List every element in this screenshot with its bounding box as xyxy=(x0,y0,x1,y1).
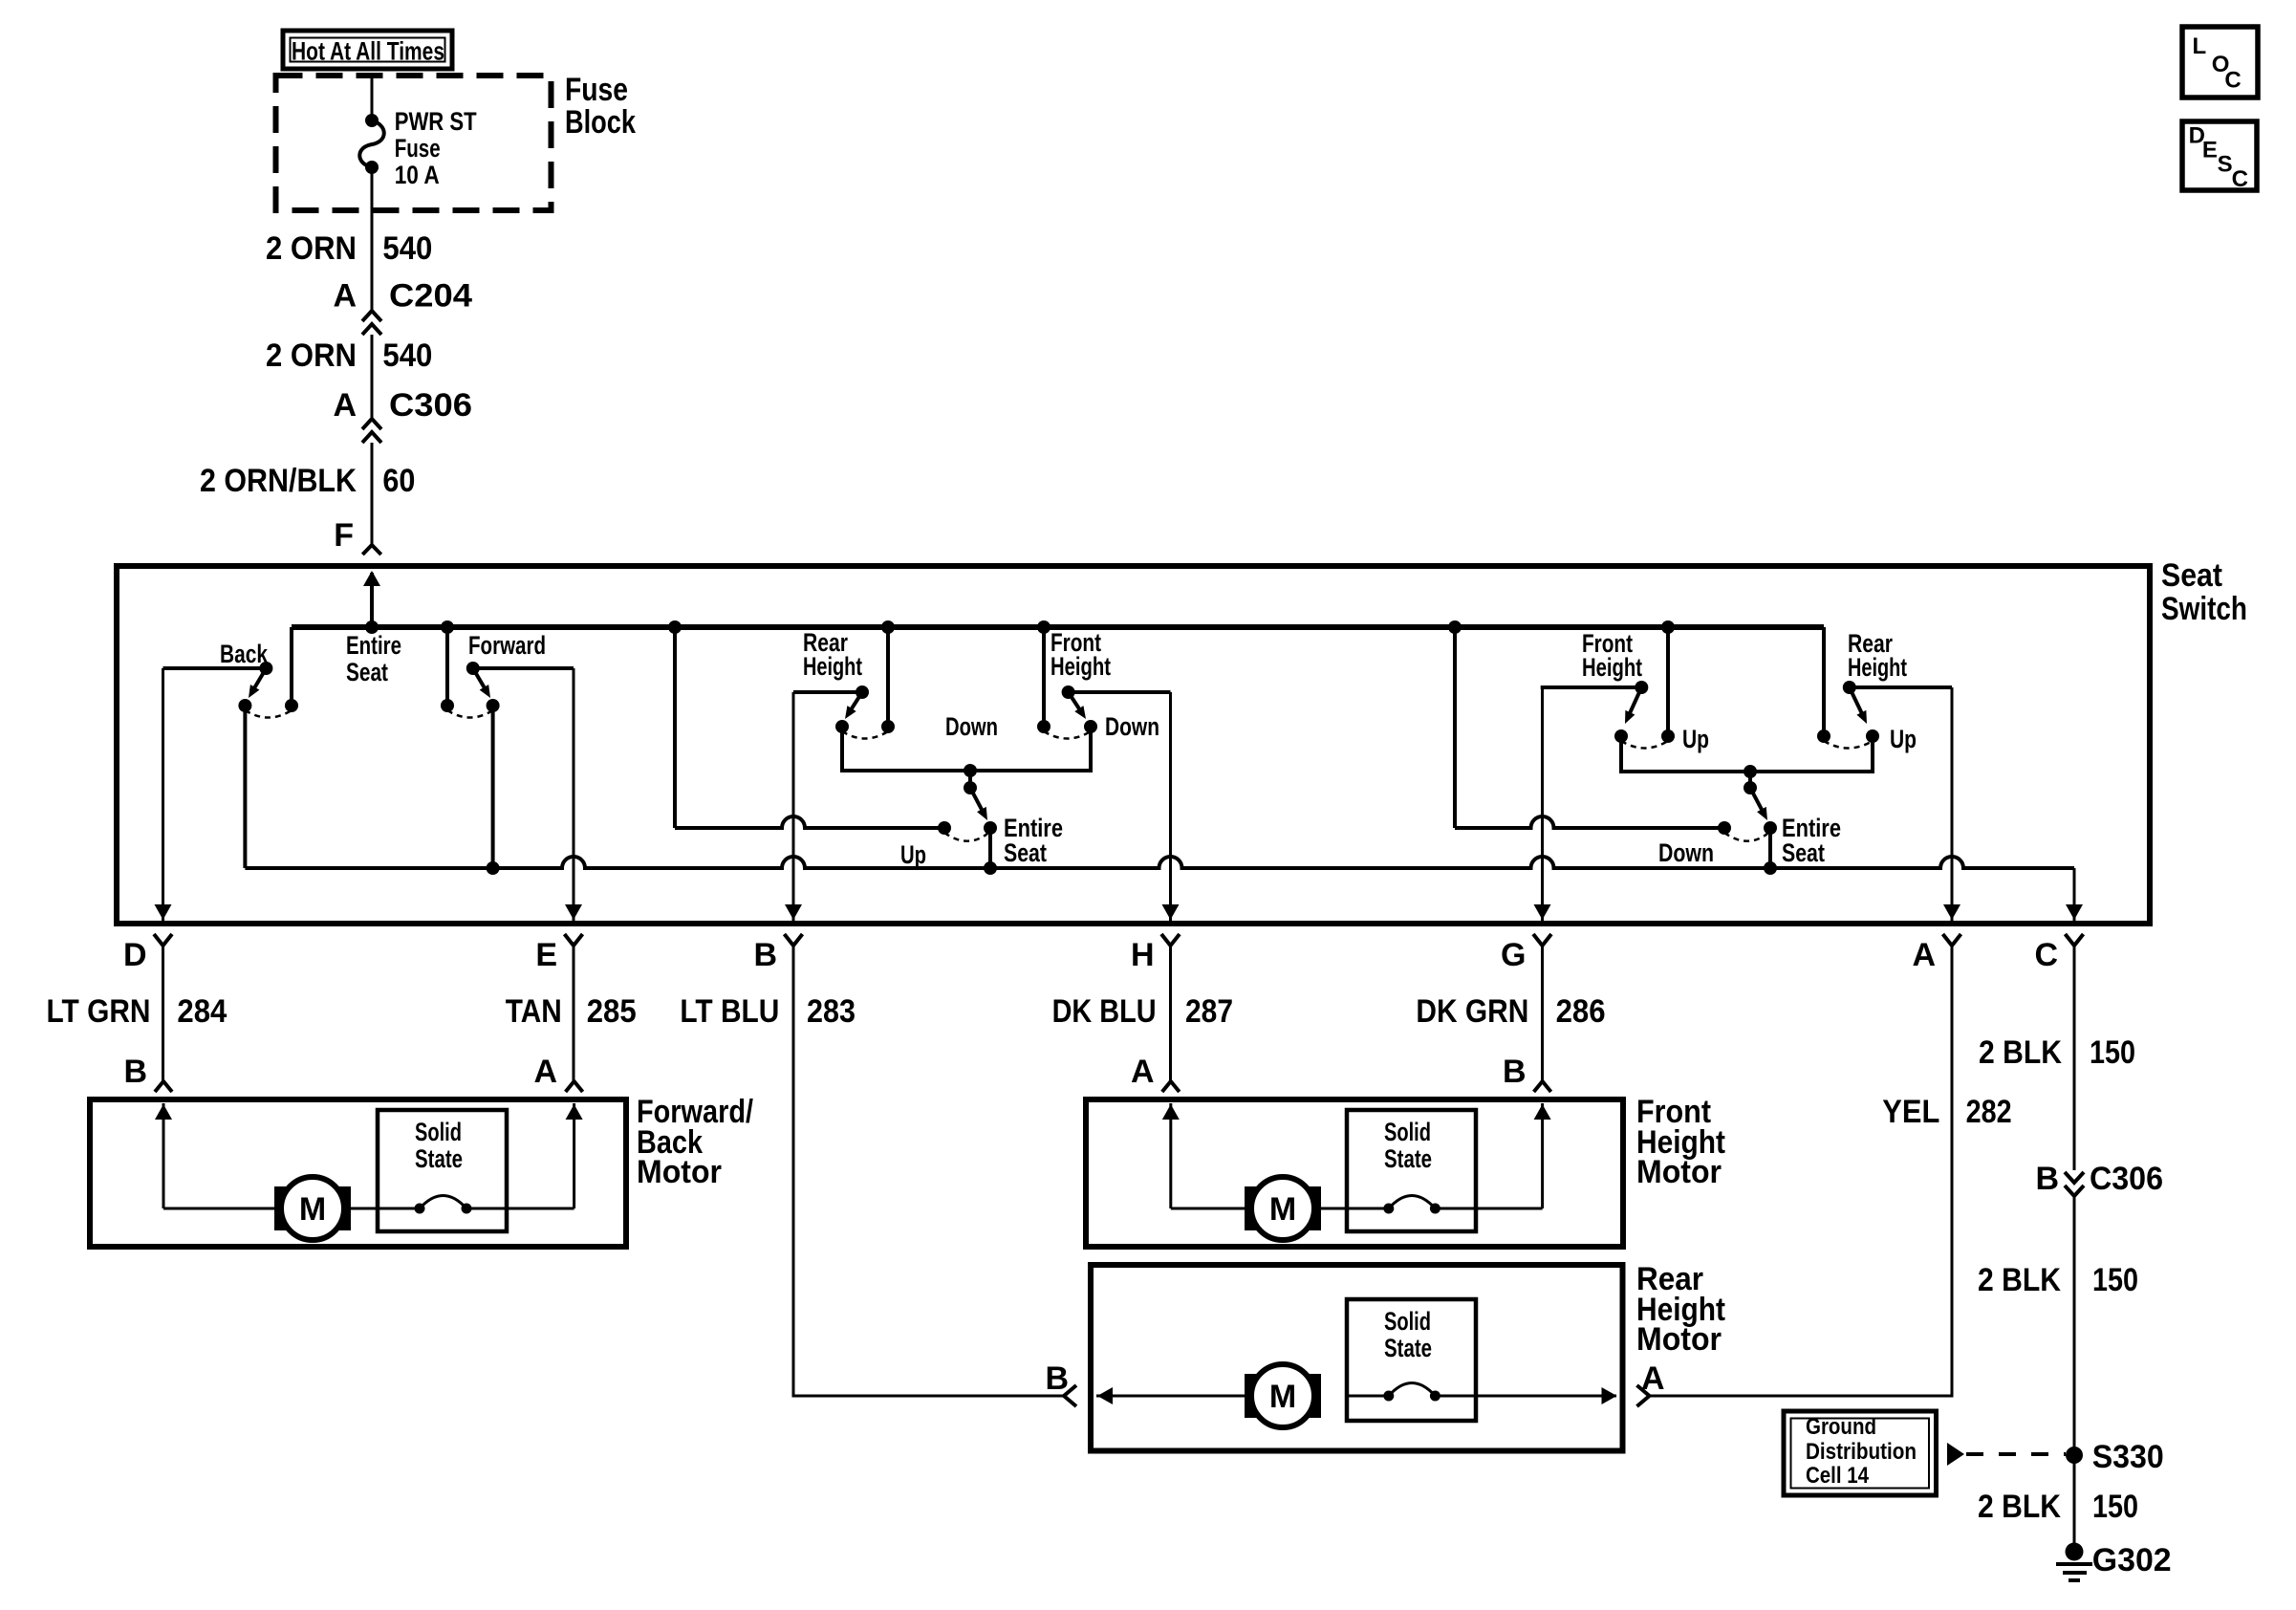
svg-text:B: B xyxy=(753,937,777,973)
forward switch contacts xyxy=(441,699,454,712)
svg-text:LT GRN: LT GRN xyxy=(47,993,151,1030)
svg-text:C204: C204 xyxy=(389,278,472,315)
svg-text:Seat: Seat xyxy=(346,658,388,686)
svg-text:A: A xyxy=(533,1054,557,1090)
svg-text:2 BLK: 2 BLK xyxy=(1978,1262,2061,1298)
wire E vertical xyxy=(573,668,575,921)
svg-text:10 A: 10 A xyxy=(395,161,440,189)
rear height (right) contacts xyxy=(1817,729,1830,743)
terminal B of seat switch xyxy=(785,904,802,920)
wire fuse to C204 xyxy=(371,167,374,310)
svg-text:YEL: YEL xyxy=(1882,1094,1939,1130)
wire H vertical xyxy=(1169,692,1172,921)
FH motor M symbol xyxy=(1245,1186,1321,1230)
bus junction (forward) xyxy=(441,620,454,634)
svg-text:150: 150 xyxy=(2092,1489,2138,1525)
svg-text:2 BLK: 2 BLK xyxy=(1979,1034,2062,1071)
front height blade xyxy=(1069,692,1081,711)
svg-text:282: 282 xyxy=(1966,1094,2012,1130)
terminal H of seat switch xyxy=(1162,904,1180,920)
svg-text:150: 150 xyxy=(2092,1262,2138,1298)
right entire seat pivot xyxy=(1744,781,1757,794)
wire C306 to seat switch F xyxy=(371,443,374,546)
svg-text:C: C xyxy=(2224,68,2241,94)
right entire seat blade xyxy=(1750,788,1763,812)
svg-text:Seat: Seat xyxy=(1782,838,1825,867)
svg-text:150: 150 xyxy=(2090,1034,2135,1071)
svg-text:Seat: Seat xyxy=(2161,557,2222,594)
svg-text:Up: Up xyxy=(1682,725,1709,753)
back switch pivot xyxy=(259,662,272,675)
front height (right) contacts xyxy=(1614,729,1628,743)
front height (right) blade xyxy=(1629,687,1641,715)
wire G vertical xyxy=(1541,687,1544,921)
forward/back motor box xyxy=(90,1099,626,1247)
svg-text:C: C xyxy=(2034,937,2058,973)
wire B vertical xyxy=(792,692,795,921)
svg-text:Solid: Solid xyxy=(415,1118,462,1146)
svg-text:285: 285 xyxy=(587,993,637,1030)
wire D to motor xyxy=(162,946,164,1082)
svg-text:Cell 14: Cell 14 xyxy=(1806,1463,1870,1489)
middle entire seat to lower bus xyxy=(988,828,992,868)
middle contacts joining line xyxy=(842,727,1091,771)
FH thermal breaker xyxy=(1347,1207,1389,1210)
front height (right) pivot xyxy=(1635,681,1648,694)
svg-text:A: A xyxy=(1131,1054,1155,1090)
middle entire seat pivot xyxy=(964,781,977,794)
svg-text:287: 287 xyxy=(1185,993,1233,1030)
svg-text:2 ORN/BLK: 2 ORN/BLK xyxy=(200,463,357,499)
LOC reference box xyxy=(2182,27,2258,98)
bus drop to back contact xyxy=(290,627,293,706)
rear height motor box xyxy=(1091,1265,1623,1451)
svg-text:PWR ST: PWR ST xyxy=(395,107,477,136)
svg-text:Motor: Motor xyxy=(1636,1321,1722,1358)
forward switch blade xyxy=(473,668,486,689)
svg-text:Fuse: Fuse xyxy=(395,134,441,163)
rear height (right) pivot xyxy=(1843,681,1856,694)
FH motor wires xyxy=(1171,1207,1245,1210)
svg-text:Down: Down xyxy=(945,712,998,741)
front height contacts xyxy=(1037,720,1051,733)
svg-text:Height: Height xyxy=(1582,653,1642,682)
svg-text:S: S xyxy=(2218,152,2233,178)
svg-text:Block: Block xyxy=(565,104,636,141)
FH solid state box xyxy=(1347,1110,1476,1231)
bus junction (front height down) xyxy=(1037,620,1051,634)
svg-text:G: G xyxy=(1501,937,1526,973)
rear height blade xyxy=(850,692,862,711)
right contacts joining line xyxy=(1621,736,1873,772)
svg-text:2 ORN: 2 ORN xyxy=(266,230,357,267)
bus junction (front height up) xyxy=(1661,620,1675,634)
back switch blade xyxy=(253,668,266,689)
svg-text:286: 286 xyxy=(1556,993,1606,1030)
wire G to motor xyxy=(1541,946,1544,1082)
middle entire seat contacts xyxy=(938,821,951,835)
front height motor box xyxy=(1086,1099,1623,1247)
RH motor right lead xyxy=(1435,1395,1616,1398)
svg-text:State: State xyxy=(1384,1144,1432,1173)
bus drop front-height up contact xyxy=(1666,627,1670,736)
wire D pivot line xyxy=(163,666,267,670)
power bus xyxy=(292,624,1824,630)
lower bus junction (forward) xyxy=(487,861,500,875)
right entire seat to lower bus xyxy=(1768,828,1772,868)
svg-text:B: B xyxy=(123,1054,147,1090)
svg-text:State: State xyxy=(1384,1334,1432,1362)
svg-text:Forward: Forward xyxy=(468,631,546,660)
dashed reference pointer to S330 xyxy=(1947,1443,1964,1466)
svg-text:B: B xyxy=(2035,1161,2059,1197)
terminal C of seat switch xyxy=(2066,904,2083,920)
RH thermal breaker xyxy=(1347,1395,1389,1398)
svg-text:Solid: Solid xyxy=(1384,1307,1431,1336)
svg-text:E: E xyxy=(535,937,557,973)
seat switch box xyxy=(117,566,2150,924)
RH solid state box xyxy=(1347,1299,1476,1421)
svg-text:2 ORN: 2 ORN xyxy=(266,337,357,374)
svg-text:DK GRN: DK GRN xyxy=(1416,993,1528,1030)
bus drop rear-height down contact xyxy=(886,627,890,727)
svg-text:C306: C306 xyxy=(389,387,472,424)
svg-text:A: A xyxy=(333,278,357,315)
svg-text:M: M xyxy=(299,1191,326,1228)
wire E to motor xyxy=(573,946,575,1082)
svg-text:Down: Down xyxy=(1105,712,1159,741)
RH motor M symbol xyxy=(1245,1374,1321,1418)
terminal D of seat switch xyxy=(155,904,172,920)
bus junction F xyxy=(365,620,379,634)
FH motor B lead xyxy=(1541,1103,1544,1208)
up line (bus to middle entire seat) xyxy=(673,627,677,828)
middle entire-seat junction xyxy=(964,764,977,777)
wire A vertical xyxy=(1951,687,1954,921)
rear height pivot line xyxy=(793,690,862,694)
rear height (right) blade xyxy=(1850,687,1863,715)
wire from fuse block top to fuse xyxy=(371,76,374,120)
svg-text:Motor: Motor xyxy=(637,1154,722,1190)
bus drop front-height down contact xyxy=(1042,627,1046,727)
svg-text:Down: Down xyxy=(1658,838,1714,867)
rear height contacts xyxy=(835,720,849,733)
svg-text:L: L xyxy=(2193,33,2207,59)
bus drop rear-height left contact xyxy=(1822,627,1826,736)
svg-text:D: D xyxy=(123,937,147,973)
svg-text:S330: S330 xyxy=(2092,1439,2164,1475)
lower bus (common return) xyxy=(245,857,2074,868)
right entire seat contacts xyxy=(1718,821,1731,835)
svg-text:Motor: Motor xyxy=(1636,1154,1722,1190)
svg-text:TAN: TAN xyxy=(506,993,562,1030)
svg-text:Height: Height xyxy=(1051,652,1111,681)
back switch contacts xyxy=(238,699,251,712)
svg-text:H: H xyxy=(1131,937,1155,973)
svg-text:F: F xyxy=(334,517,354,554)
svg-text:B: B xyxy=(1503,1054,1527,1090)
RH motor left lead xyxy=(1096,1395,1245,1398)
svg-text:A: A xyxy=(1641,1360,1665,1397)
svg-text:Up: Up xyxy=(1890,725,1917,753)
wire D vertical xyxy=(162,668,164,921)
svg-text:540: 540 xyxy=(382,337,432,374)
splice S330 xyxy=(2066,1447,2083,1464)
svg-text:284: 284 xyxy=(177,993,227,1030)
svg-text:Height: Height xyxy=(803,652,862,681)
forward contact wire to lower bus xyxy=(491,706,495,868)
fuse block (dashed box) xyxy=(276,76,552,210)
svg-text:C: C xyxy=(2232,166,2248,192)
power entry arrow (F) xyxy=(370,573,374,627)
svg-text:A: A xyxy=(1912,937,1936,973)
back contact wire to lower bus xyxy=(243,706,247,868)
svg-text:G302: G302 xyxy=(2092,1542,2172,1578)
svg-text:Height: Height xyxy=(1848,653,1907,682)
FB motor A lead xyxy=(573,1103,575,1208)
ground distribution callout box xyxy=(1784,1411,1937,1495)
svg-text:Solid: Solid xyxy=(1384,1118,1431,1146)
svg-text:M: M xyxy=(1269,1191,1296,1228)
front height (right) pivot line xyxy=(1541,685,1642,689)
svg-text:Entire: Entire xyxy=(346,631,401,660)
svg-text:E: E xyxy=(2202,138,2218,163)
svg-text:DK BLU: DK BLU xyxy=(1052,993,1157,1030)
front height pivot line xyxy=(1069,690,1171,694)
wire H to motor xyxy=(1169,946,1172,1082)
down line (bus to right entire seat) xyxy=(1453,627,1457,828)
svg-text:Switch: Switch xyxy=(2161,591,2247,627)
wire C upper segment xyxy=(2073,946,2076,1171)
svg-text:Ground: Ground xyxy=(1806,1414,1876,1440)
FB thermal breaker xyxy=(378,1207,420,1210)
svg-text:C306: C306 xyxy=(2090,1161,2163,1197)
Hot At All Times callout box xyxy=(283,31,452,69)
svg-text:State: State xyxy=(415,1144,463,1173)
svg-text:A: A xyxy=(333,387,357,424)
forward switch pivot line xyxy=(473,666,574,670)
connector C306 (bottom) xyxy=(2065,1172,2084,1183)
svg-text:60: 60 xyxy=(382,463,415,499)
middle entire seat blade xyxy=(970,788,983,812)
bus junction (rear height down) xyxy=(881,620,895,634)
wire RH motor A to YEL xyxy=(1637,1385,1650,1406)
lower bus junction (right ES) xyxy=(1764,861,1777,875)
bus drop to forward contact xyxy=(445,627,449,706)
front height pivot xyxy=(1062,685,1075,699)
FB motor B lead xyxy=(162,1103,165,1208)
bus junction (up line) xyxy=(668,620,682,634)
svg-text:2 BLK: 2 BLK xyxy=(1978,1489,2061,1525)
FB solid state box xyxy=(378,1110,507,1231)
svg-text:Hot At All Times: Hot At All Times xyxy=(292,37,444,66)
bus junction (down line right) xyxy=(1448,620,1462,634)
svg-text:M: M xyxy=(1269,1379,1296,1415)
lower bus junction (middle ES) xyxy=(984,861,997,875)
wire C204 to C306 xyxy=(371,335,374,418)
FH motor A lead xyxy=(1169,1103,1172,1208)
right entire-seat junction xyxy=(1744,765,1757,778)
rear height pivot xyxy=(856,685,869,699)
svg-text:B: B xyxy=(1045,1360,1069,1397)
terminal A of seat switch xyxy=(1943,904,1960,920)
FB motor M symbol xyxy=(274,1186,351,1230)
rear height (right) pivot line xyxy=(1850,685,1952,689)
svg-text:540: 540 xyxy=(382,230,432,267)
terminal G of seat switch xyxy=(1534,904,1551,920)
svg-text:LT BLU: LT BLU xyxy=(680,993,779,1030)
forward switch pivot xyxy=(466,662,480,675)
DESC reference box xyxy=(2182,121,2257,190)
svg-text:Up: Up xyxy=(900,840,926,869)
terminal E of seat switch xyxy=(565,904,582,920)
ground G302 xyxy=(2066,1543,2084,1561)
wire C lower segment xyxy=(2073,1196,2076,1543)
wire LT BLU to RH motor (terminal B) xyxy=(793,946,1063,1397)
svg-text:Fuse: Fuse xyxy=(565,72,628,108)
svg-text:Seat: Seat xyxy=(1004,838,1047,867)
fuse PWR ST 10A xyxy=(365,114,379,127)
FB motor wires xyxy=(163,1207,274,1210)
svg-text:Distribution: Distribution xyxy=(1806,1439,1917,1465)
svg-text:283: 283 xyxy=(807,993,856,1030)
